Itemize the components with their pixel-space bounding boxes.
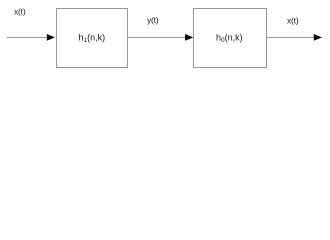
block h0(n,k) — [194, 9, 267, 68]
wire middle arrow — [128, 34, 194, 41]
block h1(n,k) — [57, 9, 128, 68]
wire input arrow — [7, 34, 55, 41]
svg-text:h0(n,k): h0(n,k) — [216, 33, 243, 45]
svg-text:x(t): x(t) — [287, 15, 299, 25]
svg-text:x(t): x(t) — [14, 6, 26, 16]
svg-text:h1(n,k): h1(n,k) — [79, 33, 106, 45]
wire output arrow — [267, 34, 323, 41]
svg-text:y(t): y(t) — [147, 15, 159, 25]
